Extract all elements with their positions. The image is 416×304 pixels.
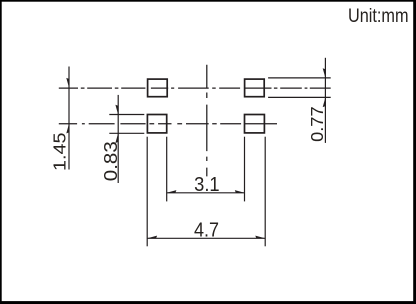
svg-text:0.77: 0.77	[307, 106, 327, 142]
svg-text:Unit:mm: Unit:mm	[348, 5, 409, 27]
svg-text:3.1: 3.1	[194, 174, 220, 196]
svg-text:0.83: 0.83	[101, 141, 121, 181]
svg-text:1.45: 1.45	[50, 133, 70, 172]
svg-text:4.7: 4.7	[194, 219, 219, 241]
